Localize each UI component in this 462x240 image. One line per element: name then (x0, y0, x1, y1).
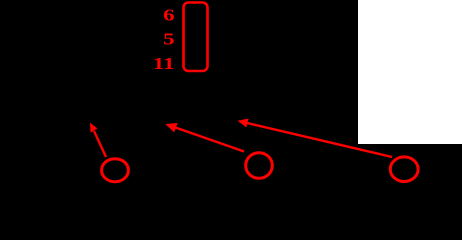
white panel top-right (358, 0, 462, 144)
highlight box (red rounded rectangle) (184, 3, 208, 72)
arrow 1 shaft (94, 131, 106, 157)
circle 2 (246, 153, 273, 179)
svg-text:11: 11 (153, 55, 175, 74)
svg-text:5: 5 (163, 30, 174, 49)
arrow 2 head (165, 123, 177, 132)
svg-text:6: 6 (163, 6, 174, 25)
arrow 3 head (238, 119, 249, 128)
circle 3 (390, 157, 418, 182)
circle 1 (102, 159, 129, 182)
arrow 3 shaft (247, 123, 392, 157)
arrow 2 shaft (174, 127, 244, 152)
arrow 1 head (90, 123, 98, 133)
